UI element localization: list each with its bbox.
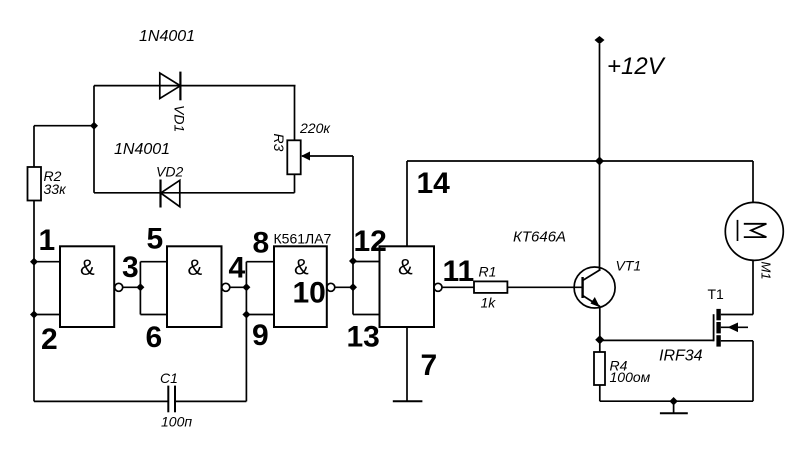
wire gate2 out	[230, 286, 247, 288]
svg-text:5: 5	[147, 223, 164, 256]
ground stub	[673, 401, 675, 413]
wire R4 bottom	[599, 385, 601, 401]
wire pin6 stub	[140, 314, 167, 316]
svg-text:1k: 1k	[481, 295, 497, 311]
wire source down	[752, 341, 754, 401]
wire emitter to mosfet gate	[600, 339, 714, 341]
wire gate3 out	[335, 286, 353, 288]
svg-text:14: 14	[417, 167, 451, 200]
diode VD1	[160, 73, 181, 99]
left rail down from R2	[33, 201, 35, 402]
node 10-12	[349, 283, 357, 291]
wiper arrow of R3	[302, 155, 353, 157]
node input 2	[30, 311, 38, 319]
svg-text:6: 6	[146, 321, 163, 354]
wire pin14 vertical	[406, 161, 408, 246]
svg-text:220к: 220к	[299, 120, 331, 136]
svg-text:13: 13	[347, 321, 380, 354]
wire gate4 out to R1	[442, 286, 474, 288]
node rail crossing	[595, 157, 604, 166]
output bubble gate 1	[115, 283, 123, 291]
node ground junction	[669, 397, 677, 405]
mosfet source wire	[721, 340, 753, 342]
svg-text:4: 4	[229, 252, 246, 285]
wire wiper down to gate 4 input	[352, 156, 354, 315]
svg-text:7: 7	[421, 349, 438, 382]
svg-text:8: 8	[253, 227, 270, 260]
wire link vertical g1-g2	[139, 262, 141, 315]
svg-text:2: 2	[41, 323, 58, 356]
svg-text:11: 11	[443, 255, 475, 288]
node emitter junction	[595, 335, 604, 344]
node 9	[242, 311, 250, 319]
gate U1.2	[167, 246, 222, 327]
wire pin5 stub	[140, 261, 167, 263]
wire left vertical of diode block	[93, 86, 95, 193]
wire pin9 stub	[246, 314, 274, 316]
svg-text:VD2: VD2	[156, 164, 183, 180]
svg-text:КТ646А: КТ646А	[513, 229, 566, 246]
svg-text:R3: R3	[271, 134, 287, 152]
wire R2 top lead	[33, 126, 35, 167]
svg-text:12: 12	[354, 225, 387, 258]
resistor R1	[474, 281, 507, 293]
mosfet drain wire	[721, 314, 753, 316]
gate U1.1	[60, 246, 114, 327]
svg-text:100п: 100п	[161, 414, 192, 430]
svg-text:&: &	[398, 255, 413, 280]
ground bar	[660, 412, 688, 414]
svg-text:1: 1	[39, 224, 56, 257]
svg-text:100ом: 100ом	[610, 369, 651, 385]
svg-text:3: 3	[122, 251, 139, 284]
svg-text:+12V: +12V	[607, 53, 666, 80]
mosfet T1 gate line	[713, 314, 715, 341]
wire link vertical g2-g3	[245, 262, 247, 315]
svg-text:IRF34: IRF34	[659, 348, 703, 365]
wire drain up to motor	[752, 260, 754, 314]
svg-text:10: 10	[293, 277, 326, 310]
wire emitter down	[599, 307, 601, 353]
wire gate1 out	[123, 286, 141, 288]
wire right vertical to R3	[294, 86, 296, 141]
wire bottom diode branch	[94, 192, 295, 194]
output bubble gate 2	[222, 283, 230, 291]
gate U1.3	[274, 246, 327, 327]
svg-text:К561ЛА7: К561ЛА7	[274, 231, 332, 247]
capacitor C1	[34, 400, 168, 402]
wire pin12 stub	[353, 261, 380, 263]
wire bottom rail	[600, 400, 753, 402]
node input 1	[30, 258, 38, 266]
node 3	[136, 283, 144, 291]
node 4	[242, 283, 250, 291]
resistor R4	[594, 352, 605, 385]
output bubble gate 4	[434, 283, 442, 291]
+12V terminal	[595, 36, 605, 44]
wire motor top lead	[752, 161, 754, 202]
node 12 top	[349, 257, 357, 265]
gate U1.4	[380, 246, 435, 327]
diode VD2	[161, 180, 180, 206]
transistor VT1	[574, 267, 615, 308]
svg-text:&: &	[80, 255, 95, 280]
wire top diode branch	[94, 85, 296, 87]
potentiometer R3	[287, 140, 300, 174]
wire down to C1 rail	[245, 315, 247, 402]
wire pin7 vertical	[406, 327, 408, 401]
resistor R2	[28, 167, 42, 201]
svg-text:9: 9	[252, 319, 269, 352]
svg-text:VD1: VD1	[172, 105, 188, 132]
mosfet substrate arrow	[721, 326, 748, 328]
wire R1 to base	[507, 286, 582, 288]
svg-text:T1: T1	[708, 286, 725, 302]
svg-text:M1: M1	[759, 262, 774, 280]
svg-text:C1: C1	[160, 370, 178, 386]
output bubble gate 3	[327, 283, 335, 291]
svg-text:VT1: VT1	[616, 258, 642, 274]
motor M1	[725, 202, 783, 260]
svg-text:&: &	[188, 255, 203, 280]
wire +12V vertical	[599, 44, 601, 270]
ground pin7	[393, 400, 423, 402]
wire +12V rail	[407, 160, 753, 162]
wire pin13 stub	[353, 314, 380, 316]
mosfet channel bars	[716, 309, 720, 320]
wire pin8 stub	[246, 261, 274, 263]
svg-text:1N4001: 1N4001	[139, 28, 195, 45]
svg-text:1N4001: 1N4001	[114, 141, 170, 158]
wire pin1 stub	[34, 261, 60, 263]
svg-text:33к: 33к	[44, 181, 68, 197]
wire pin2 stub	[34, 314, 60, 316]
svg-text:R1: R1	[479, 264, 497, 280]
node junction at R2 branch	[90, 122, 98, 130]
wire R2 branch horizontal	[34, 125, 94, 127]
